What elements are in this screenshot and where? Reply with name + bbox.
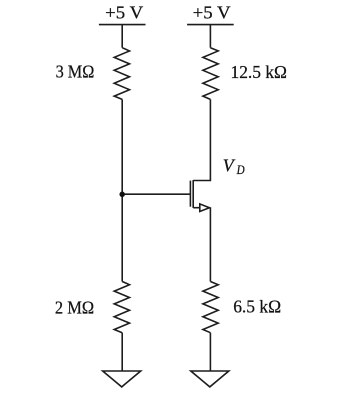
node G junction dot: [119, 192, 125, 198]
svg-text:+5 V: +5 V: [105, 2, 143, 22]
wire arrow to corner: [209, 207, 210, 209]
svg-text:3 MΩ: 3 MΩ: [56, 62, 95, 82]
wire R1 to node G and to R2: [121, 99, 123, 281]
wire supply to R3: [209, 25, 211, 48]
wire R2 to ground: [121, 333, 123, 371]
svg-text:D: D: [236, 162, 245, 177]
wire R4 to ground: [209, 333, 211, 371]
wire gate: [122, 193, 190, 195]
supply bar +5V right: [187, 24, 234, 26]
supply bar +5V left: [99, 24, 146, 26]
resistor R2 2 MOhm: [114, 282, 129, 333]
ground left: [103, 371, 141, 387]
resistor R3 12.5 kOhm: [203, 48, 218, 100]
svg-text:V: V: [223, 156, 236, 176]
svg-text:12.5 kΩ: 12.5 kΩ: [231, 62, 288, 82]
transistor M1 gate bar: [189, 181, 191, 207]
svg-text:6.5 kΩ: 6.5 kΩ: [233, 297, 281, 317]
transistor M1 channel bar: [192, 180, 194, 208]
svg-text:2 MΩ: 2 MΩ: [55, 297, 94, 317]
wire source to R4: [209, 208, 211, 282]
transistor M1 source arrow: [200, 204, 210, 212]
resistor R4 6.5 kOhm: [203, 282, 218, 333]
resistor R1 3 MOhm: [114, 48, 129, 100]
svg-text:+5 V: +5 V: [193, 2, 231, 22]
wire drain: [193, 99, 210, 180]
ground right: [191, 371, 229, 387]
transistor M1 source wire: [193, 207, 200, 209]
wire supply to R1: [121, 25, 123, 48]
